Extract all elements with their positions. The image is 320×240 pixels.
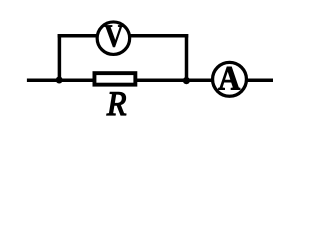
wire main horizontal bbox=[27, 78, 273, 82]
label R bbox=[107, 92, 126, 115]
ammeter letter A bbox=[218, 67, 239, 89]
wire branch vertical right bbox=[185, 34, 189, 80]
node right junction dot bbox=[183, 77, 190, 84]
wire branch top horizontal bbox=[58, 34, 189, 38]
wire branch vertical left bbox=[58, 34, 62, 80]
voltmeter letter V bbox=[104, 25, 123, 46]
resistor R box bbox=[94, 73, 135, 85]
node left junction dot bbox=[56, 77, 63, 84]
voltmeter V1 circle bbox=[97, 22, 129, 55]
ammeter A1 circle bbox=[213, 62, 247, 96]
